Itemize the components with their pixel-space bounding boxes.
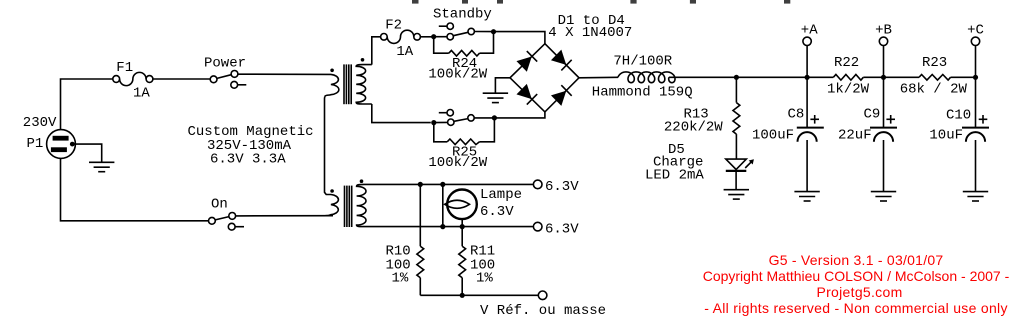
svg-text:22uF: 22uF: [838, 128, 872, 144]
terminal +A: [803, 37, 811, 77]
svg-text:10uF: 10uF: [929, 128, 963, 144]
bridge rectifier D1-D4 diamond: [510, 44, 579, 112]
svg-text:1%: 1%: [476, 270, 493, 286]
node junction R10 top: [418, 182, 423, 187]
svg-text:Power: Power: [204, 55, 246, 71]
ground (LED): [724, 190, 749, 199]
wire F1 to Power: [153, 78, 210, 80]
LED D5: [726, 159, 754, 190]
wire bridge left to ground: [495, 78, 510, 93]
switch Power: [210, 71, 246, 89]
transformer T1 primary winding (top): [325, 74, 339, 96]
node phase dot T1 secondary: [361, 58, 365, 62]
node junction R11 bottom: [460, 293, 465, 298]
node phase dot T1 primary: [330, 69, 334, 73]
terminal V ref: [538, 291, 547, 300]
node junction lamp left bottom: [440, 224, 445, 229]
svg-text:+A: +A: [801, 23, 818, 39]
switch Standby: [434, 23, 494, 40]
svg-text:+B: +B: [875, 23, 892, 39]
svg-text:C9: C9: [864, 107, 881, 123]
transformer T2 secondary winding: [357, 184, 366, 226]
node junction lamp bottom / R11: [460, 224, 465, 229]
lamp: [445, 190, 477, 227]
wire 6.3V bottom rail: [363, 226, 533, 228]
ground (bridge): [483, 93, 508, 102]
svg-text:On: On: [211, 197, 228, 213]
wire R22 to +B: [863, 76, 919, 78]
ground (C8): [794, 192, 819, 201]
svg-text:68k / 2W: 68k / 2W: [900, 82, 968, 98]
node phase dot T2 primary: [330, 189, 334, 193]
node phase dot T2 secondary: [360, 179, 364, 183]
svg-text:Standby: Standby: [433, 7, 492, 23]
capacitor C8: [797, 77, 824, 191]
wire standby node to bridge top: [494, 32, 545, 44]
svg-text:7H/100R: 7H/100R: [613, 54, 672, 70]
svg-text:100k/2W: 100k/2W: [428, 67, 487, 83]
node junction B2: [492, 115, 497, 120]
wire T1 primary to T2 primary: [325, 96, 332, 194]
diode D4 (lower-right, points to right corner): [551, 85, 572, 106]
svg-text:+C: +C: [967, 23, 984, 39]
svg-text:F1: F1: [116, 60, 133, 76]
svg-text:100uF: 100uF: [752, 128, 794, 144]
node junction +A: [805, 75, 810, 80]
resistor R13: [733, 77, 740, 159]
svg-text:6.3V 3.3A: 6.3V 3.3A: [210, 151, 286, 167]
top cut-off marks: [412, 0, 790, 4]
wire lamp left vertical: [442, 184, 444, 226]
terminal 6.3V top: [533, 180, 542, 189]
node junction +B: [881, 75, 886, 80]
inductor L1 choke: [618, 72, 675, 83]
ground (plug): [89, 162, 114, 171]
node junction +C: [973, 75, 978, 80]
copyright red text: [656, 252, 1024, 316]
svg-text:4 X 1N4007: 4 X 1N4007: [548, 25, 632, 41]
wire plug to ground: [75, 144, 102, 162]
svg-text:6.3V: 6.3V: [480, 204, 514, 220]
plug P1: [47, 130, 76, 159]
wire choke to +C rail: [669, 76, 806, 78]
svg-text:1A: 1A: [133, 85, 150, 101]
node junction A1: [431, 34, 436, 39]
svg-text:LED 2mA: LED 2mA: [645, 167, 704, 183]
fuse F2: [381, 30, 421, 43]
resistor R10: [417, 184, 424, 295]
node junction A2: [491, 29, 496, 34]
svg-text:1%: 1%: [392, 270, 409, 286]
svg-text:Hammond 159Q: Hammond 159Q: [592, 85, 693, 101]
svg-text:P1: P1: [27, 136, 44, 152]
node junction lamp left top: [440, 182, 445, 187]
svg-text:6.3V: 6.3V: [545, 179, 579, 195]
svg-text:1k/2W: 1k/2W: [827, 82, 870, 98]
transformer T2 primary winding (bottom): [326, 195, 339, 216]
terminal +C: [971, 37, 979, 77]
transformer T1 core: [344, 64, 351, 104]
svg-text:R22: R22: [834, 55, 859, 71]
wire T1 secondary bottom to R25 node: [372, 104, 431, 123]
resistor R24 (parallel with standby switch): [434, 32, 494, 56]
terminal 6.3V bottom: [533, 222, 542, 231]
svg-text:V Réf. ou masse: V Réf. ou masse: [480, 303, 606, 319]
resistor R22: [833, 75, 863, 81]
diode D2 (upper-right, points to right corner): [551, 50, 572, 71]
transformer T1 secondary winding: [356, 65, 372, 104]
wire mains loop left: [61, 79, 209, 221]
wire bridge right to choke: [579, 76, 618, 79]
diode D1 (upper-left, points to top corner): [516, 51, 537, 72]
wire R25 node to bridge bottom: [494, 112, 545, 118]
svg-text:100k/2W: 100k/2W: [428, 155, 487, 171]
switch Standby 2: [434, 110, 495, 126]
svg-text:Lampe: Lampe: [480, 187, 522, 203]
node junction R13 top: [734, 75, 739, 80]
capacitor C10: [962, 77, 989, 191]
svg-text:F2: F2: [385, 18, 402, 34]
transformer T2 core: [345, 186, 352, 227]
svg-text:C10: C10: [946, 107, 971, 123]
wire 6.3V top rail: [364, 183, 533, 185]
svg-text:1A: 1A: [396, 44, 413, 60]
fuse F1: [113, 72, 153, 85]
wire F2 to standby node: [420, 36, 433, 38]
wire rail to R22: [807, 76, 833, 78]
svg-text:220k/2W: 220k/2W: [664, 119, 723, 135]
switch On: [209, 213, 245, 231]
terminal +B: [879, 37, 887, 77]
svg-text:C8: C8: [788, 107, 805, 123]
wire Power to transformer primary: [238, 73, 331, 75]
node junction B1 (R25 left): [431, 120, 436, 125]
diode D3 (lower-left, points to bottom corner): [516, 84, 537, 105]
svg-text:6.3V: 6.3V: [545, 221, 579, 237]
resistor R11: [459, 227, 466, 296]
resistor R25 (parallel with standby switch 2): [434, 118, 495, 145]
ground (C9): [871, 192, 896, 201]
wire On to transformer primary bottom: [236, 215, 333, 217]
svg-text:R23: R23: [922, 55, 947, 71]
wire T1 secondary top to F2: [372, 37, 381, 65]
svg-text:230V: 230V: [23, 115, 57, 131]
resistor R23: [919, 75, 951, 81]
wire R23 to +C: [951, 76, 976, 78]
capacitor C9: [870, 77, 897, 191]
ground (C10): [963, 192, 988, 201]
wire V ref: [420, 294, 538, 296]
